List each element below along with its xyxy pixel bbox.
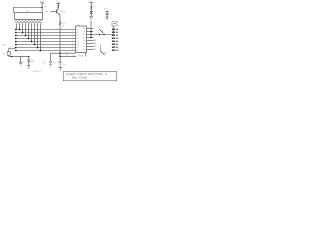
svg-text:2: 2 — [17, 24, 18, 26]
svg-text:14: 14 — [72, 37, 74, 39]
net square J1 — [112, 21, 117, 26]
wire FB1 top — [9, 47, 15, 49]
net flag column — [112, 29, 115, 31]
wire R10 vertical — [41, 3, 43, 13]
VCC bar right — [89, 2, 93, 4]
node C5/rail — [28, 56, 29, 57]
svg-text:10: 10 — [41, 24, 43, 26]
wire U1 top-left to VCC — [14, 8, 43, 13]
node rail — [11, 56, 12, 57]
emitter long vertical — [59, 15, 61, 57]
svg-text:RB: RB — [83, 34, 85, 36]
pin stubs under network — [16, 23, 18, 24]
svg-text:4: 4 — [23, 24, 24, 26]
svg-text:10u: 10u — [2, 53, 5, 55]
ferrite FB1 box — [7, 52, 10, 56]
svg-text:RB7: RB7 — [93, 49, 96, 51]
transistor Q1 — [56, 9, 58, 13]
row start dots — [15, 29, 17, 31]
svg-text:8: 8 — [35, 24, 36, 26]
svg-text:RB: RB — [83, 43, 85, 45]
svg-text:RB: RB — [83, 49, 85, 51]
svg-text:17: 17 — [72, 28, 74, 30]
svg-text:1: 1 — [117, 20, 118, 22]
svg-text:RB: RB — [83, 28, 85, 30]
svg-text:C3: C3 — [53, 62, 55, 64]
svg-text:VCC: VCC — [104, 9, 109, 11]
resistor R12 zigzag — [59, 21, 61, 25]
resistor R9 — [90, 3, 92, 17]
diagonal junction dots — [19, 29, 21, 31]
ground C4 — [105, 16, 108, 18]
svg-text:RB6: RB6 — [93, 46, 96, 48]
svg-text:13: 13 — [72, 40, 74, 42]
svg-text:11: 11 — [72, 46, 74, 48]
IC U2 box — [76, 26, 87, 53]
node osc1 — [59, 52, 61, 54]
svg-text:F84A: F84A — [78, 54, 83, 57]
svg-text:R12: R12 — [61, 23, 64, 25]
svg-text:100n: 100n — [31, 62, 35, 64]
svg-text:4k7: 4k7 — [61, 26, 64, 28]
cap C2 — [49, 60, 52, 62]
svg-text:RB: RB — [83, 31, 85, 33]
svg-text:D1: D1 — [94, 12, 96, 14]
svg-text:12: 12 — [72, 43, 74, 45]
node junction R10/VCC — [41, 7, 42, 8]
resistor network elements — [15, 21, 17, 23]
svg-text:4: 4 — [88, 27, 89, 29]
arrow down net flag — [90, 16, 93, 19]
cap C3 — [59, 60, 62, 62]
svg-text:4-WAY INPUT BUTTON - 1: 4-WAY INPUT BUTTON - 1 — [66, 72, 108, 76]
svg-text:5: 5 — [26, 24, 27, 26]
osc2 wire — [60, 55, 75, 57]
svg-text:C4: C4 — [109, 14, 111, 16]
svg-text:MC CH2: MC CH2 — [72, 76, 88, 80]
svg-text:R9: R9 — [93, 7, 95, 9]
cap C4 top bar — [106, 10, 109, 12]
svg-text:22p: 22p — [43, 63, 46, 65]
svg-text:9: 9 — [96, 44, 97, 46]
svg-text:9: 9 — [38, 24, 39, 26]
pin verticals — [16, 24, 18, 30]
svg-text:22p: 22p — [62, 64, 65, 66]
ground C3 — [59, 63, 61, 68]
ground left — [20, 57, 22, 63]
svg-text:FB1: FB1 — [2, 45, 5, 47]
svg-text:RB: RB — [83, 46, 85, 48]
wire S1 up — [99, 45, 101, 51]
U2 bottom pin — [84, 53, 86, 57]
svg-text:VCC: VCC — [40, 1, 45, 3]
capacitor C5 — [28, 57, 30, 60]
svg-text:RB: RB — [83, 37, 85, 39]
U2 right pin stubs — [87, 28, 94, 30]
VCC power bar U1 — [40, 2, 44, 4]
svg-text:BC547: BC547 — [61, 11, 67, 13]
svg-text:R8 10k: R8 10k — [97, 27, 103, 29]
wire MCLR extension — [93, 34, 113, 36]
svg-text:25.07.07: 25.07.07 — [33, 71, 42, 73]
base wire — [51, 11, 57, 13]
svg-text:3: 3 — [20, 24, 21, 26]
svg-text:10: 10 — [72, 49, 74, 51]
title block box — [63, 72, 117, 81]
mark in square — [113, 23, 116, 25]
right bus vertical — [90, 21, 92, 39]
svg-text:15: 15 — [72, 34, 74, 36]
svg-text:10k: 10k — [101, 31, 104, 33]
resistor R11 vertical — [57, 3, 59, 9]
svg-text:16: 16 — [72, 31, 74, 33]
junction dots right bus — [90, 31, 92, 33]
ground C2 — [49, 64, 52, 66]
svg-text:7: 7 — [32, 24, 33, 26]
osc1 wire — [51, 53, 76, 61]
svg-text:RA4: RA4 — [45, 10, 49, 13]
IC U1 resistor-network box — [15, 13, 43, 20]
node dots on MCLR — [99, 34, 100, 35]
wire square down — [112, 26, 114, 35]
bus rows — [15, 29, 75, 31]
node osc2 — [59, 56, 61, 58]
svg-text:R10: R10 — [44, 6, 47, 8]
VCC bar Q1 — [56, 2, 60, 4]
svg-text:S1: S1 — [100, 48, 102, 50]
svg-text:RB4: RB4 — [93, 40, 96, 42]
svg-text:RB: RB — [83, 40, 85, 42]
wire FB1 bottom — [8, 55, 10, 56]
svg-text:6: 6 — [29, 24, 30, 26]
wire osc3 — [59, 56, 61, 61]
svg-text:U2: U2 — [77, 25, 79, 27]
ground under C5 — [27, 65, 30, 67]
cap C4 plates — [106, 12, 109, 14]
wire bottom rail left — [9, 56, 29, 58]
diode D1 — [90, 11, 92, 13]
